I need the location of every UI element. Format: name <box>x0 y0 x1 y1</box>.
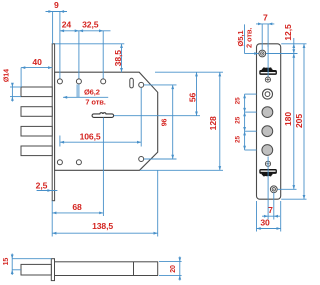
svg-text:15: 15 <box>3 258 10 266</box>
svg-text:180: 180 <box>283 112 293 126</box>
top screw hole D5,1 washer <box>259 50 266 57</box>
dimension 68 <box>52 202 103 214</box>
dimension 40 <box>21 57 52 87</box>
svg-text:7 отв.: 7 отв. <box>85 98 105 107</box>
leader D5,1 2 holes <box>236 24 259 54</box>
faceplate left extension line <box>51 201 53 237</box>
dimension 24 and 32,5 <box>60 20 111 98</box>
svg-text:7: 7 <box>268 205 273 215</box>
dimension 7 bottom <box>262 193 280 220</box>
screw hole row2 h1 <box>57 160 62 165</box>
svg-text:2 отв.: 2 отв. <box>245 28 254 48</box>
key right extension line <box>114 115 200 117</box>
dimension 205 line <box>294 44 305 199</box>
svg-text:Ø6,2: Ø6,2 <box>84 87 100 96</box>
lock body outline with chamfered corners <box>55 72 158 170</box>
bolt hole 2 <box>262 107 273 118</box>
faceplate centre line (lower) <box>267 157 269 201</box>
dimension 12,5 + 180 + 205 extensions <box>281 43 306 45</box>
svg-text:96: 96 <box>162 119 169 127</box>
screw hole row1 h1 <box>57 79 62 84</box>
svg-text:24: 24 <box>62 20 72 30</box>
faceplate (side strip) <box>52 44 54 201</box>
bottom screw hole D5,1 washer <box>270 186 277 193</box>
svg-text:38,5: 38,5 <box>113 50 123 67</box>
screw hole row2 h2 <box>76 160 81 165</box>
bolt hole 4 <box>262 145 273 156</box>
svg-text:25: 25 <box>235 97 242 105</box>
svg-text:2,5: 2,5 <box>36 181 48 191</box>
body top extension line <box>155 71 223 73</box>
bolt B4 <box>21 146 52 156</box>
svg-text:20: 20 <box>170 265 177 273</box>
dimension 12,5 and 180 line <box>283 24 295 189</box>
svg-text:12,5: 12,5 <box>283 24 293 41</box>
svg-text:32,5: 32,5 <box>82 20 99 30</box>
slot in body <box>130 78 134 88</box>
dimension 138,5 <box>52 221 158 234</box>
dimension 38,5 <box>113 44 123 72</box>
bolt B3 <box>21 126 52 136</box>
dimension 106,5 <box>60 88 141 147</box>
svg-text:68: 68 <box>72 202 82 212</box>
chamfer hole top extension <box>144 84 177 86</box>
bolt B2 <box>21 107 52 117</box>
screw top (cross) <box>265 77 270 82</box>
svg-text:205: 205 <box>294 114 304 128</box>
screw hole row1 h2 <box>76 79 81 84</box>
dimension 15 <box>3 254 51 276</box>
dimension 9 <box>46 0 68 81</box>
logo top <box>259 67 277 75</box>
svg-text:106,5: 106,5 <box>80 132 101 142</box>
dimension 96 <box>162 85 175 159</box>
screw hole row1 h3 <box>101 79 106 84</box>
bolt B1 <box>21 87 52 97</box>
chamfer hole bottom extension <box>144 158 177 160</box>
svg-text:25: 25 <box>235 116 242 124</box>
body bottom extension line <box>140 169 223 171</box>
logo bottom (mirrored) <box>259 169 277 177</box>
bolt hole 1 (rings) <box>263 89 273 99</box>
svg-text:56: 56 <box>188 93 198 103</box>
dimension 25 x3 <box>235 94 257 150</box>
faceplate end bar <box>51 259 54 281</box>
svg-text:30: 30 <box>260 218 270 228</box>
leader D6,2 7 holes <box>63 84 108 106</box>
body right extension line <box>157 170 159 236</box>
faceplate front outline <box>257 44 281 199</box>
chamfer hole bottom <box>139 157 144 162</box>
bolt (side) <box>21 264 51 275</box>
dimension 128 <box>208 72 221 170</box>
dimension 30 <box>257 201 281 232</box>
bolt hole 3 <box>262 126 273 137</box>
leader 2,5 faceplate thickness <box>36 181 58 192</box>
key center extension line <box>102 118 104 217</box>
screw bottom (cross) <box>265 161 270 166</box>
keyhole silhouette <box>92 113 114 118</box>
dimension 20 <box>159 257 182 281</box>
svg-text:Ø14: Ø14 <box>3 69 10 82</box>
svg-text:25: 25 <box>235 136 242 144</box>
dimension 56 <box>188 72 198 116</box>
svg-text:40: 40 <box>32 57 42 67</box>
body bar divider <box>133 262 135 276</box>
dimension D14 <box>3 69 21 102</box>
body bar <box>55 262 158 276</box>
faceplate top extension line <box>55 43 124 45</box>
svg-text:138,5: 138,5 <box>92 221 113 231</box>
svg-text:9: 9 <box>54 0 59 10</box>
svg-text:128: 128 <box>208 116 218 130</box>
svg-text:7: 7 <box>263 13 268 23</box>
chamfer hole top <box>139 82 144 87</box>
dimension 7 top <box>256 13 274 50</box>
faceplate centre line (upper) <box>267 44 269 77</box>
